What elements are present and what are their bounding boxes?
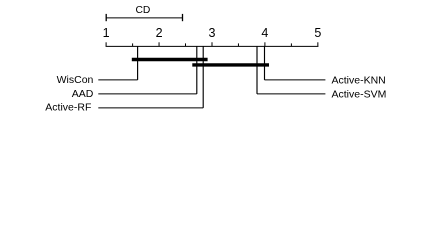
- svg-text:Active-KNN: Active-KNN: [332, 75, 386, 87]
- svg-text:5: 5: [314, 26, 321, 40]
- svg-text:3: 3: [209, 26, 216, 40]
- svg-text:CD: CD: [135, 5, 150, 16]
- svg-text:Active-RF: Active-RF: [45, 101, 91, 113]
- svg-text:1: 1: [103, 26, 110, 40]
- svg-text:AAD: AAD: [72, 88, 94, 100]
- svg-text:WisCon: WisCon: [57, 74, 94, 86]
- svg-text:4: 4: [261, 26, 268, 40]
- svg-text:Active-SVM: Active-SVM: [332, 89, 387, 101]
- svg-text:2: 2: [156, 26, 163, 40]
